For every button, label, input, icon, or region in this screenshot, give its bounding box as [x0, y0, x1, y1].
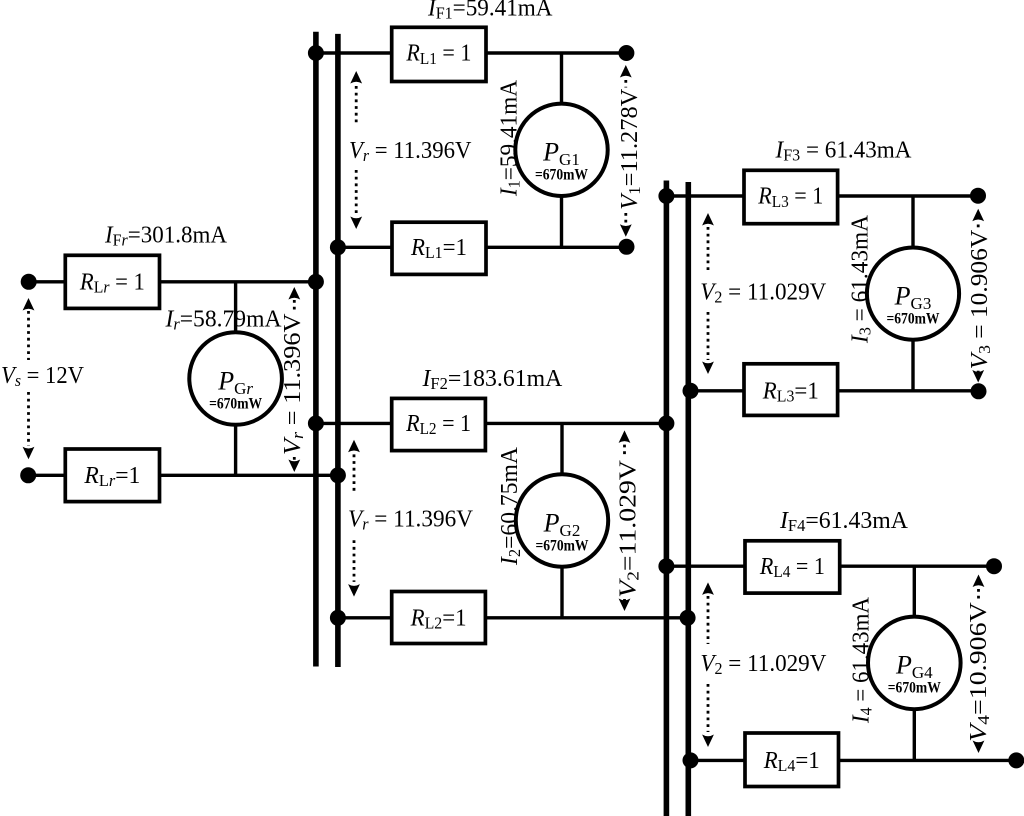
- arrow V1 up head: [620, 65, 632, 78]
- arrow V2-F2 down head: [619, 599, 631, 612]
- wire: RLr bottom to bus B: [160, 474, 338, 477]
- node: junction on bus C (F2 top): [658, 415, 674, 431]
- resistor RL3 (top): [744, 170, 838, 223]
- arrow V3 down head: [972, 370, 984, 383]
- wire: PG4 top stem: [913, 566, 916, 617]
- node: F1 bottom right terminal: [619, 239, 635, 255]
- wire: RL2 to bus C: [485, 422, 666, 425]
- svg-text:Vs = 12V: Vs = 12V: [1, 362, 84, 390]
- resistor RL1 (top): [392, 27, 486, 81]
- arrow V3 dotted lower: [977, 371, 980, 378]
- wire: PG1 top stem: [560, 53, 563, 104]
- arrow V2-F2 dotted upper: [623, 445, 626, 456]
- arrow Vr-F2 dotted lower: [353, 540, 356, 582]
- arrow V1 dotted upper: [624, 80, 627, 88]
- wire: PGr top stem: [234, 282, 237, 333]
- resistor RL1 (bottom): [392, 222, 486, 274]
- wire: PGr bottom stem: [234, 425, 237, 476]
- node: junction on bus D (F3 bottom): [683, 383, 699, 399]
- wire: source- to RLr bottom: [28, 474, 65, 477]
- svg-text:=670mW: =670mW: [536, 537, 589, 554]
- svg-text:=670mW: =670mW: [887, 310, 940, 327]
- arrow V4 up head: [973, 575, 985, 588]
- arrow V2-F4 up head: [702, 582, 714, 595]
- resistor RL2 (top): [392, 398, 486, 450]
- arrow V2-F3 down head: [702, 362, 714, 375]
- svg-text:=670mW: =670mW: [535, 167, 588, 184]
- svg-text:=670mW: =670mW: [209, 395, 262, 412]
- svg-text:I3 = 61.43mA: I3 = 61.43mA: [847, 215, 875, 344]
- node: junction on bus A (r top): [308, 274, 324, 290]
- wire: bus C (left rail of right feeder): [664, 181, 670, 816]
- wire: bus A (left rail of center feeder): [313, 32, 319, 667]
- node: junction on bus D (F2 bottom): [680, 610, 696, 626]
- wire: RL4 bottom to F4 terminal: [839, 759, 1017, 762]
- wire: bus B to RL1 bottom: [338, 246, 392, 249]
- wire: PG1 bottom stem: [560, 196, 563, 247]
- generator PGr: [189, 332, 282, 425]
- wire: source+ to RLr: [29, 280, 66, 283]
- arrow V2-F3 dotted upper: [707, 227, 710, 272]
- svg-text:I4 = 61.43mA: I4 = 61.43mA: [847, 597, 875, 724]
- svg-text:RL3 = 1: RL3 = 1: [757, 183, 823, 211]
- node: junction on bus A (F1 top): [308, 45, 324, 61]
- node: F3 top right terminal: [970, 188, 986, 204]
- arrow Vr-F1 dotted lower: [355, 170, 358, 213]
- wire: PG2 top stem: [560, 423, 563, 474]
- arrow V2-F3 up head: [702, 213, 714, 226]
- svg-text:RL2 = 1: RL2 = 1: [405, 410, 471, 438]
- arrow V2-F4 dotted upper: [707, 596, 710, 644]
- wire: bus A to RL2: [316, 422, 392, 425]
- arrow Vr-left dotted lower: [293, 457, 296, 465]
- node: junction on bus B (r bottom): [330, 467, 346, 483]
- generator PG2: [516, 474, 608, 566]
- node: junction on bus A (F2 top): [308, 415, 324, 431]
- node: junction on bus D (F4 bottom): [683, 752, 699, 768]
- arrow Vr-F1 dotted upper: [355, 86, 358, 124]
- generator PG4: [868, 617, 961, 710]
- wire: bus C to RL4: [666, 565, 745, 568]
- svg-text:RLr = 1: RLr = 1: [79, 268, 145, 296]
- wire: PG3 bottom stem: [911, 340, 914, 391]
- resistor RL4 (top): [745, 541, 840, 593]
- arrow V4 dotted lower: [977, 743, 980, 750]
- wire: bus A to RL1: [316, 51, 392, 54]
- arrow Vs down head: [23, 447, 35, 460]
- arrow V4 dotted upper: [977, 589, 980, 600]
- arrow V2-F2 up head: [619, 430, 631, 443]
- arrow Vr-F2 down head: [348, 584, 360, 597]
- resistor RLr (top): [65, 255, 159, 308]
- arrow Vr-F1 up head: [350, 71, 362, 84]
- arrow V2-F4 dotted lower: [707, 684, 710, 732]
- wire: bus C to RL3: [666, 194, 744, 197]
- arrow Vs dotted upper: [27, 311, 30, 360]
- generator PG3: [867, 248, 959, 340]
- node: junction on bus B (F2 bottom): [330, 610, 346, 626]
- arrow Vr-F2 dotted upper: [353, 454, 356, 491]
- arrow V1 down head: [620, 224, 632, 237]
- node: source + terminal: [21, 274, 37, 290]
- wire: bus D (right rail of right feeder): [685, 182, 691, 816]
- arrow V3 dotted upper: [977, 225, 980, 229]
- svg-text:RL1 = 1: RL1 = 1: [405, 40, 471, 68]
- svg-text:IF1=59.41mA: IF1=59.41mA: [427, 0, 553, 23]
- arrow V2-F2 dotted lower: [623, 599, 626, 605]
- wire: bus D to RL4 bottom: [691, 759, 746, 762]
- wire: bus B (right rail of center feeder): [335, 34, 341, 667]
- wire: RL3 to F3 terminal: [838, 194, 978, 197]
- wire: bus D to RL3 bottom: [691, 389, 745, 392]
- arrow Vr-F1 down head: [350, 217, 362, 230]
- arrow V2-F3 dotted lower: [707, 312, 710, 360]
- arrow Vr-left up head: [288, 287, 300, 300]
- arrow Vr-left down head: [288, 460, 300, 473]
- node: F4 top right terminal: [986, 558, 1002, 574]
- wire: PG4 bottom stem: [913, 709, 916, 760]
- wire: bus B to RL2 bottom: [338, 616, 392, 619]
- svg-text:RL4 = 1: RL4 = 1: [759, 553, 825, 581]
- svg-text:Ir=58.79mA: Ir=58.79mA: [165, 306, 282, 334]
- arrow V3 up head: [972, 209, 984, 222]
- arrow Vs up head: [23, 298, 35, 311]
- wire: RLr to bus A: [160, 280, 316, 283]
- node: junction on bus C (F4 top): [658, 558, 674, 574]
- node: junction on bus C (F3 top): [658, 188, 674, 204]
- resistor RL3 (bottom): [744, 364, 838, 416]
- node: junction on bus B (F1 bottom): [330, 239, 346, 255]
- node: source - terminal: [20, 467, 36, 483]
- svg-text:I2=60.75mA: I2=60.75mA: [496, 447, 524, 566]
- arrow Vr-F2 up head: [348, 440, 360, 453]
- wire: RL1 bottom to F1 terminal: [486, 246, 627, 249]
- arrow V1 dotted lower: [624, 213, 627, 223]
- svg-text:=670mW: =670mW: [888, 680, 941, 697]
- arrow Vr-left dotted upper: [293, 300, 296, 311]
- wire: RL1 to PG1 node: [486, 51, 626, 54]
- wire: PG2 bottom stem: [560, 567, 563, 618]
- wire: RL3 bottom to F3 terminal: [838, 389, 979, 392]
- resistor RL2 (bottom): [392, 592, 486, 644]
- resistor RL4 (bottom): [745, 733, 839, 787]
- arrow V4 down head: [973, 741, 985, 754]
- node: F4 bottom right terminal: [1008, 752, 1024, 768]
- node: F3 bottom right terminal: [971, 383, 987, 399]
- arrow Vs dotted lower: [27, 392, 30, 446]
- node: F1 top right terminal: [618, 45, 634, 61]
- arrow V2-F4 down head: [702, 735, 714, 748]
- resistor RLr (bottom): [65, 449, 159, 502]
- wire: RL4 to F4 terminal: [840, 565, 994, 568]
- wire: RL2 bottom to bus D: [485, 616, 688, 619]
- wire: PG3 top stem: [911, 196, 914, 248]
- svg-text:I1=59.41mA: I1=59.41mA: [496, 80, 524, 197]
- generator PG1: [515, 104, 607, 196]
